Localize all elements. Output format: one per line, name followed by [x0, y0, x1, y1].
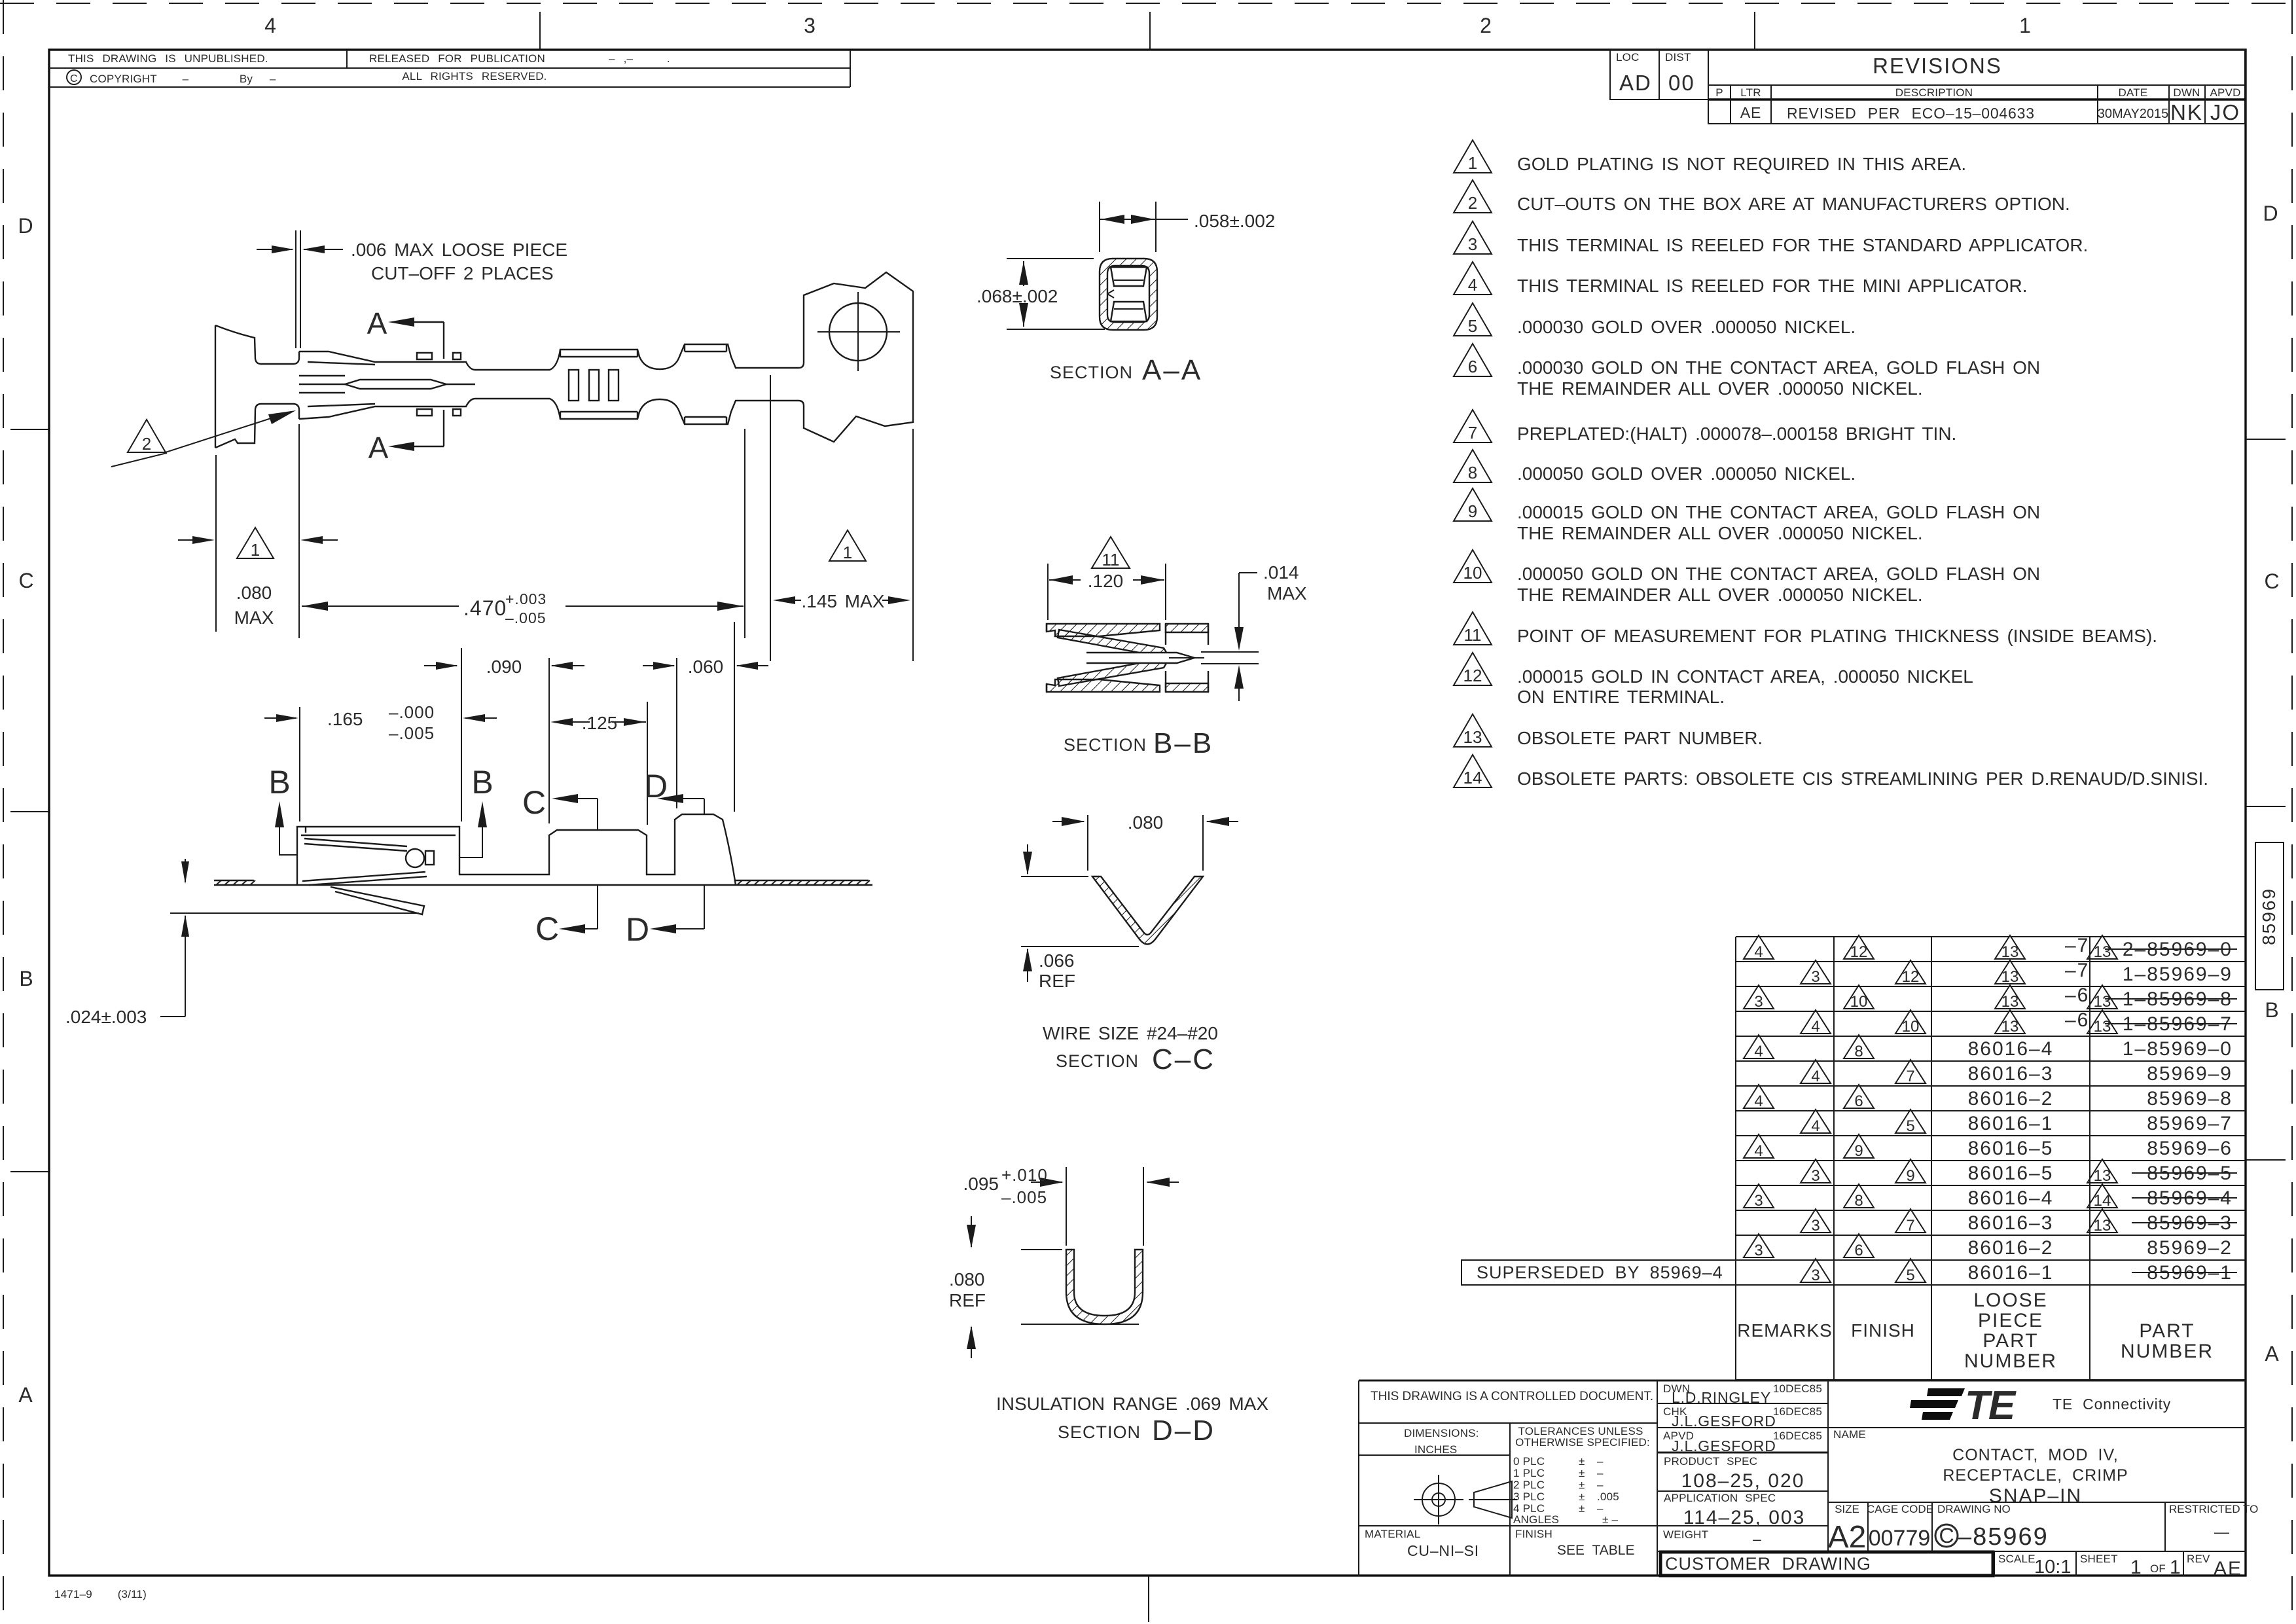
dim .090	[424, 658, 584, 823]
svg-text:REV: REV	[2187, 1553, 2210, 1565]
svg-text:A: A	[18, 1383, 33, 1407]
svg-text:ON ENTIRE TERMINAL.: ON ENTIRE TERMINAL.	[1517, 687, 1725, 707]
carrier strip tab	[804, 272, 913, 442]
svg-text:.165: .165	[327, 709, 363, 729]
svg-text:–: –	[1597, 1479, 1604, 1491]
svg-text:13: 13	[2001, 968, 2019, 986]
svg-text:.005: .005	[1597, 1490, 1619, 1503]
svg-text:OBSOLETE PART NUMBER.: OBSOLETE PART NUMBER.	[1517, 728, 1763, 748]
zone ticks top	[540, 12, 1755, 1622]
REVISIONS table	[1708, 50, 2245, 124]
note 1 flag	[1454, 140, 1492, 173]
svg-text:+.003: +.003	[505, 590, 547, 607]
TE logo	[1910, 1383, 2017, 1428]
svg-text:1 PLC: 1 PLC	[1513, 1467, 1545, 1479]
svg-text:THIS DRAWING IS UNPUBLISHED: THIS DRAWING IS UNPUBLISHED.	[68, 52, 268, 65]
title block	[1359, 1380, 2246, 1576]
svg-text:DATE: DATE	[2119, 86, 2148, 99]
svg-text:4: 4	[1754, 1092, 1763, 1110]
superseded box	[1462, 1260, 1736, 1285]
svg-text:THIS TERMINAL IS REELED FOR TH: THIS TERMINAL IS REELED FOR THE MINI APP…	[1517, 276, 2028, 296]
outer walls	[1047, 624, 1160, 636]
svg-text:86016–5: 86016–5	[1968, 1163, 2054, 1184]
beams inside A-A	[1111, 267, 1147, 321]
svg-text:PREPLATED:(HALT) .000078–.0001: PREPLATED:(HALT) .000078–.000158 BRIGHT …	[1517, 424, 1956, 444]
svg-text:C: C	[2264, 569, 2279, 593]
svg-text:30MAY2015: 30MAY2015	[2098, 107, 2169, 121]
svg-text:SCALE: SCALE	[1998, 1553, 2036, 1565]
svg-text:10DEC85: 10DEC85	[1773, 1382, 1822, 1395]
table row 14	[1801, 1259, 2237, 1284]
svg-text:.000050 GOLD ON THE CONTACT AR: .000050 GOLD ON THE CONTACT AREA, GOLD F…	[1517, 564, 2040, 584]
table row 4	[1801, 1009, 2237, 1036]
svg-text:12: 12	[1902, 968, 1920, 986]
box interior beams	[299, 376, 475, 393]
SECTION B-B view	[1047, 624, 1208, 692]
svg-text:THIS TERMINAL IS REELED FOR TH: THIS TERMINAL IS REELED FOR THE STANDARD…	[1517, 235, 2088, 255]
right wall section	[1166, 624, 1208, 632]
svg-text:.058±.002: .058±.002	[1194, 211, 1275, 231]
svg-text:DESCRIPTION: DESCRIPTION	[1895, 86, 1973, 99]
svg-text:85969–9: 85969–9	[2147, 1063, 2233, 1085]
svg-text:SIZE: SIZE	[1835, 1503, 1859, 1515]
svg-text:.068±.002: .068±.002	[977, 286, 1058, 306]
svg-text:8: 8	[1854, 1043, 1863, 1060]
svg-text:C: C	[535, 911, 559, 947]
svg-text:–6: –6	[2065, 1009, 2089, 1031]
dim .120	[1048, 564, 1166, 620]
svg-text:1–85969–0: 1–85969–0	[2123, 1038, 2233, 1060]
table row 10	[1801, 1159, 2237, 1185]
insulation barrel inner lines	[685, 344, 726, 424]
svg-text:±: ±	[1579, 1455, 1585, 1468]
svg-text:—: —	[2214, 1523, 2230, 1540]
serration slots	[569, 370, 579, 401]
svg-text:.014: .014	[1263, 562, 1299, 583]
svg-text:–: –	[1597, 1455, 1604, 1468]
svg-text:COPYRIGHT – By –: COPYRIGHT – By –	[90, 73, 276, 85]
svg-text:AD: AD	[1619, 71, 1652, 95]
svg-text:1471–9 (3/11): 1471–9 (3/11)	[54, 1588, 147, 1600]
svg-text:16DEC85: 16DEC85	[1773, 1405, 1822, 1418]
svg-text:7: 7	[1906, 1217, 1914, 1235]
svg-text:13: 13	[2001, 1018, 2019, 1036]
svg-text:DRAWING NO: DRAWING NO	[1937, 1503, 2011, 1515]
table row 11	[1744, 1184, 2237, 1210]
notes flags and texts	[1454, 140, 2208, 789]
svg-text:+.010: +.010	[1001, 1165, 1048, 1185]
table row 5	[1744, 1035, 2233, 1060]
svg-text:10: 10	[1463, 563, 1482, 583]
svg-text:SECTION: SECTION	[1064, 735, 1147, 755]
table row 7	[1744, 1085, 2233, 1110]
svg-text:.080: .080	[236, 583, 272, 603]
note 6 flag	[1454, 344, 1492, 376]
table row 9	[1744, 1134, 2233, 1160]
svg-text:C–C: C–C	[1152, 1043, 1215, 1075]
note 8 flag	[1454, 450, 1492, 482]
svg-text:APPLICATION SPEC: APPLICATION SPEC	[1664, 1492, 1776, 1504]
projection symbol	[1414, 1475, 1517, 1525]
svg-text:B–B: B–B	[1153, 727, 1213, 759]
box interior spring	[302, 839, 427, 885]
SECTION A-A view	[1100, 259, 1157, 330]
svg-text:RESTRICTED TO: RESTRICTED TO	[2169, 1503, 2258, 1515]
svg-text:C: C	[18, 569, 33, 592]
svg-text:85969: 85969	[2259, 888, 2279, 945]
svg-text:CUSTOMER DRAWING: CUSTOMER DRAWING	[1665, 1554, 1871, 1574]
svg-text:11: 11	[1464, 625, 1482, 645]
svg-text:PRODUCT SPEC: PRODUCT SPEC	[1664, 1455, 1757, 1468]
svg-text:–.005: –.005	[505, 609, 547, 626]
note 13 flag	[1454, 714, 1492, 747]
svg-text:JO: JO	[2210, 100, 2240, 124]
section D-D cut lines	[662, 799, 704, 814]
svg-text:A2: A2	[1828, 1520, 1867, 1555]
svg-text:OBSOLETE PARTS: OBSOLETE CIS S: OBSOLETE PARTS: OBSOLETE CIS STREAMLININ…	[1517, 768, 2208, 789]
svg-text:PART: PART	[1982, 1330, 2038, 1352]
svg-text:10:1: 10:1	[2034, 1557, 2071, 1578]
svg-text:DWN: DWN	[2173, 86, 2200, 99]
svg-text:–6: –6	[2065, 984, 2089, 1006]
svg-text:–.005: –.005	[389, 723, 435, 743]
svg-text:WIRE SIZE #24–#20: WIRE SIZE #24–#20	[1043, 1023, 1218, 1043]
svg-text:D–D: D–D	[1152, 1415, 1215, 1447]
svg-text:3: 3	[1811, 1217, 1820, 1235]
section A-A cut line bottom	[413, 410, 444, 446]
note 12 flag	[1454, 653, 1492, 685]
svg-text:11: 11	[1102, 550, 1120, 569]
svg-text:16DEC85: 16DEC85	[1773, 1430, 1822, 1442]
svg-text:13: 13	[2094, 1018, 2111, 1036]
svg-text:CUT–OUTS ON THE BOX ARE AT MAN: CUT–OUTS ON THE BOX ARE AT MANUFACTURERS…	[1517, 194, 2070, 214]
svg-text:PART: PART	[2139, 1320, 2195, 1342]
zone letters right	[2263, 202, 2279, 1365]
table row 2	[1801, 960, 2233, 986]
svg-text:NAME: NAME	[1833, 1428, 1866, 1441]
svg-text:12: 12	[1850, 943, 1868, 961]
svg-text:THIS DRAWING IS A CONTROLL: THIS DRAWING IS A CONTROLLED DOCUMENT.	[1371, 1390, 1653, 1403]
svg-text:1: 1	[2170, 1557, 2182, 1578]
svg-text:7: 7	[1906, 1068, 1914, 1085]
svg-text:13: 13	[2001, 943, 2019, 961]
svg-text:.024±.003: .024±.003	[65, 1007, 147, 1027]
svg-text:1: 1	[2019, 14, 2031, 37]
svg-text:NUMBER: NUMBER	[1964, 1350, 2057, 1372]
svg-text:86016–4: 86016–4	[1968, 1187, 2054, 1209]
zone numbers top	[264, 14, 2031, 37]
flag 11	[1092, 537, 1130, 568]
svg-text:–: –	[1753, 1530, 1762, 1547]
svg-text:LTR: LTR	[1740, 86, 1761, 99]
svg-text:A–A: A–A	[1142, 354, 1202, 386]
svg-text:± –: ± –	[1602, 1513, 1618, 1526]
svg-text:.080: .080	[1128, 812, 1164, 833]
svg-text:13: 13	[2094, 1167, 2111, 1185]
svg-text:LOOSE: LOOSE	[1973, 1290, 2047, 1311]
svg-text:6: 6	[1468, 357, 1477, 376]
svg-text:NUMBER: NUMBER	[2121, 1341, 2214, 1362]
svg-text:±: ±	[1579, 1467, 1585, 1479]
svg-text:3: 3	[1811, 968, 1820, 986]
svg-text:SECTION: SECTION	[1058, 1422, 1141, 1442]
svg-text:WEIGHT: WEIGHT	[1663, 1528, 1708, 1541]
table row 8	[1801, 1110, 2233, 1135]
svg-text:86016–4: 86016–4	[1968, 1038, 2054, 1060]
svg-text:CU–NI–SI: CU–NI–SI	[1407, 1542, 1479, 1559]
svg-text:OTHERWISE SPECIFIED:: OTHERWISE SPECIFIED:	[1515, 1436, 1650, 1449]
svg-text:13: 13	[2094, 1217, 2111, 1235]
svg-text:12: 12	[1463, 666, 1482, 685]
svg-text:L.D.RINGLEY: L.D.RINGLEY	[1672, 1389, 1771, 1406]
svg-text:3: 3	[1754, 1242, 1763, 1259]
svg-text:INSULATION RANGE .069 MAX: INSULATION RANGE .069 MAX	[996, 1394, 1268, 1414]
svg-text:LOC: LOC	[1616, 51, 1640, 63]
svg-text:–.005: –.005	[1001, 1187, 1047, 1207]
dim .165	[264, 648, 497, 821]
table row 6	[1801, 1060, 2233, 1085]
svg-text:C: C	[1939, 1524, 1954, 1547]
dim .145 max	[770, 375, 913, 661]
svg-text:P: P	[1715, 86, 1723, 99]
svg-text:.000030 GOLD ON THE CONTACT AR: .000030 GOLD ON THE CONTACT AREA, GOLD F…	[1517, 357, 2040, 378]
svg-text:114–25, 003: 114–25, 003	[1683, 1507, 1806, 1528]
beams	[1058, 630, 1168, 656]
svg-text:CONTACT, MOD IV,: CONTACT, MOD IV,	[1952, 1446, 2119, 1464]
svg-text:5: 5	[1906, 1267, 1914, 1284]
pilot hole	[829, 303, 887, 361]
svg-text:MAX: MAX	[1267, 583, 1307, 604]
svg-text:10: 10	[1850, 993, 1868, 1011]
svg-text:SEE TABLE: SEE TABLE	[1557, 1543, 1634, 1558]
svg-text:14: 14	[2094, 1192, 2111, 1210]
svg-text:D: D	[626, 911, 649, 948]
svg-text:4: 4	[1811, 1068, 1820, 1085]
svg-text:FINISH: FINISH	[1851, 1320, 1915, 1341]
svg-text:4: 4	[1754, 943, 1763, 961]
dim .058	[1100, 202, 1188, 252]
dim .060	[643, 622, 768, 812]
svg-text:APVD: APVD	[2210, 86, 2240, 99]
svg-text:13: 13	[2094, 993, 2111, 1011]
svg-text:B: B	[2265, 998, 2278, 1022]
svg-text:10: 10	[1902, 1018, 1920, 1036]
customer drawing bold box	[1660, 1552, 1993, 1576]
table header labels	[1737, 1290, 2214, 1372]
svg-text:REVISED PER ECO–15–004633: REVISED PER ECO–15–004633	[1787, 105, 2035, 122]
svg-text:.000015 GOLD IN CONTACT AREA,: .000015 GOLD IN CONTACT AREA, .000050 NI…	[1517, 666, 1973, 687]
svg-text:–7: –7	[2065, 935, 2089, 956]
svg-text:THE REMAINDER ALL OVER .000050: THE REMAINDER ALL OVER .000050 NICKEL.	[1517, 585, 1923, 605]
svg-text:ALL RIGHTS RESERVED.: ALL RIGHTS RESERVED.	[402, 70, 547, 82]
svg-text:±: ±	[1579, 1502, 1585, 1515]
svg-text:D: D	[18, 214, 33, 238]
svg-text:MATERIAL: MATERIAL	[1365, 1528, 1420, 1540]
note 5 flag	[1454, 303, 1492, 336]
dim .080 (C-C)	[1052, 815, 1238, 871]
svg-text:A: A	[2265, 1342, 2279, 1365]
svg-text:±: ±	[1579, 1490, 1585, 1503]
svg-text:GOLD PLATING IS NOT REQUIRED I: GOLD PLATING IS NOT REQUIRED IN THIS ARE…	[1517, 154, 1966, 174]
svg-text:8: 8	[1854, 1192, 1863, 1210]
note 7 flag	[1454, 410, 1492, 442]
svg-text:J.L.GESFORD: J.L.GESFORD	[1672, 1437, 1776, 1454]
svg-text:THE REMAINDER ALL OVER .000050: THE REMAINDER ALL OVER .000050 NICKEL.	[1517, 523, 1923, 543]
svg-text:4: 4	[1811, 1018, 1820, 1036]
svg-text:3: 3	[1754, 993, 1763, 1011]
svg-text:DIST: DIST	[1665, 51, 1691, 63]
svg-text:D: D	[2263, 202, 2278, 225]
svg-text:.006 MAX LOOSE PIECE: .006 MAX LOOSE PIECE	[351, 240, 567, 260]
svg-text:1: 1	[2130, 1557, 2143, 1578]
table row 1	[1744, 935, 2237, 961]
dim .024	[160, 859, 185, 1017]
svg-text:5: 5	[1468, 316, 1477, 336]
svg-text:–7: –7	[2065, 960, 2089, 981]
svg-text:INCHES: INCHES	[1414, 1443, 1457, 1456]
svg-text:1: 1	[251, 540, 260, 560]
svg-text:8: 8	[1468, 463, 1477, 482]
dim .470	[302, 429, 745, 638]
svg-text:13: 13	[2094, 943, 2111, 961]
svg-text:00779: 00779	[1869, 1526, 1931, 1551]
svg-text:4: 4	[1811, 1117, 1820, 1135]
svg-text:86016–1: 86016–1	[1968, 1113, 2054, 1134]
SECTION D-D view	[1066, 1250, 1143, 1324]
svg-text:A: A	[367, 306, 387, 340]
svg-text:C: C	[70, 73, 78, 84]
section C-C cut lines	[557, 799, 598, 830]
svg-text:–85969: –85969	[1958, 1523, 2049, 1551]
svg-text:4: 4	[1754, 1043, 1763, 1060]
svg-text:SHEET: SHEET	[2080, 1553, 2118, 1565]
note 11 flag	[1454, 612, 1492, 645]
svg-text:.060: .060	[688, 657, 724, 677]
svg-text:DIMENSIONS:: DIMENSIONS:	[1404, 1427, 1479, 1439]
svg-text:B: B	[19, 967, 33, 990]
dim .125	[556, 702, 647, 825]
svg-text:POINT OF MEASUREMENT FOR PLATI: POINT OF MEASUREMENT FOR PLATING THICKNE…	[1517, 626, 2157, 646]
svg-text:6: 6	[1854, 1242, 1863, 1259]
svg-text:1–85969–9: 1–85969–9	[2123, 964, 2233, 985]
svg-text:.120: .120	[1088, 571, 1124, 591]
svg-text:3: 3	[1468, 234, 1477, 254]
dim .080 REF (D-D)	[971, 1216, 1139, 1358]
side view body	[297, 814, 736, 885]
svg-text:B: B	[268, 764, 290, 801]
section A-A cut line top	[413, 322, 444, 359]
copyright block	[49, 50, 850, 87]
bell mouth	[215, 325, 299, 448]
svg-text:108–25, 020: 108–25, 020	[1681, 1470, 1805, 1492]
svg-text:.470: .470	[463, 596, 507, 620]
svg-text:–: –	[1597, 1467, 1604, 1479]
svg-text:5: 5	[1906, 1117, 1914, 1135]
svg-text:±: ±	[1579, 1479, 1585, 1491]
svg-text:.000015 GOLD ON THE CONTACT AR: .000015 GOLD ON THE CONTACT AREA, GOLD F…	[1517, 502, 2040, 522]
svg-text:2: 2	[1480, 14, 1492, 37]
parts table grid	[1736, 937, 2245, 1380]
svg-text:86016–2: 86016–2	[1968, 1088, 2054, 1110]
note 2 flag	[1454, 180, 1492, 213]
note 4 flag	[1454, 262, 1492, 295]
svg-text:B: B	[471, 764, 493, 801]
svg-text:3: 3	[1811, 1167, 1820, 1185]
svg-text:2 PLC: 2 PLC	[1513, 1479, 1545, 1491]
svg-text:1: 1	[1468, 153, 1477, 173]
note 14 flag	[1454, 755, 1492, 787]
table row 13	[1744, 1234, 2233, 1259]
svg-text:A: A	[368, 431, 389, 465]
svg-text:.000050 GOLD OVER .000050 NICK: .000050 GOLD OVER .000050 NICKEL.	[1517, 463, 1856, 484]
svg-text:CAGE CODE: CAGE CODE	[1867, 1503, 1933, 1515]
dim .066 REF	[1021, 844, 1139, 982]
svg-text:00: 00	[1668, 71, 1695, 95]
svg-text:.090: .090	[486, 657, 522, 677]
svg-text:TE: TE	[1965, 1383, 2017, 1428]
svg-text:REF: REF	[949, 1290, 986, 1310]
dim .095	[1031, 1167, 1179, 1246]
zone ticks left/right	[10, 429, 2286, 1172]
svg-text:REVISIONS: REVISIONS	[1873, 54, 2002, 78]
note 3 flag	[1454, 221, 1492, 254]
svg-text:86016–3: 86016–3	[1968, 1212, 2054, 1234]
flag note 2 leader	[128, 420, 166, 452]
wire barrel	[550, 344, 804, 424]
svg-text:3 PLC: 3 PLC	[1513, 1490, 1545, 1503]
svg-text:– ,– .: – ,– .	[609, 52, 670, 65]
svg-text:MAX: MAX	[234, 607, 274, 628]
table row 3	[1744, 984, 2237, 1011]
svg-text:13: 13	[2001, 993, 2019, 1011]
svg-text:SUPERSEDED BY 85969–4: SUPERSEDED BY 85969–4	[1477, 1263, 1723, 1282]
svg-text:.080: .080	[949, 1269, 985, 1290]
dim .080 max	[178, 424, 338, 638]
TOP VIEW: terminal plan view	[215, 272, 913, 448]
svg-text:RECEPTACLE, CRIMP: RECEPTACLE, CRIMP	[1943, 1466, 2128, 1485]
svg-text:.095: .095	[963, 1174, 999, 1194]
svg-text:13: 13	[1463, 727, 1482, 747]
svg-text:14: 14	[1463, 768, 1482, 787]
svg-text:TE Connectivity: TE Connectivity	[2053, 1396, 2171, 1413]
dim .006 max loose piece	[257, 230, 343, 348]
dim .014 MAX	[1201, 573, 1259, 701]
table row 12	[1801, 1209, 2237, 1235]
svg-text:86016–1: 86016–1	[1968, 1262, 2054, 1284]
svg-text:.066: .066	[1039, 950, 1075, 971]
receptacle box	[299, 352, 550, 419]
svg-text:AE: AE	[1740, 104, 1761, 121]
dim .068	[1007, 259, 1105, 329]
svg-text:.145 MAX: .145 MAX	[802, 591, 885, 611]
svg-text:ANGLES: ANGLES	[1513, 1513, 1559, 1526]
note 9 flag	[1454, 488, 1492, 521]
svg-text:85969–6: 85969–6	[2147, 1138, 2233, 1159]
svg-text:0 PLC: 0 PLC	[1513, 1455, 1545, 1468]
svg-text:3: 3	[804, 14, 816, 37]
svg-text:4: 4	[1754, 1142, 1763, 1160]
svg-text:6: 6	[1854, 1092, 1863, 1110]
svg-text:85969–8: 85969–8	[2147, 1088, 2233, 1110]
svg-text:2: 2	[142, 434, 151, 454]
svg-text:3: 3	[1754, 1192, 1763, 1210]
svg-text:1: 1	[843, 543, 852, 562]
svg-text:C: C	[522, 784, 546, 821]
svg-text:–.000: –.000	[389, 702, 435, 722]
svg-text:7: 7	[1468, 423, 1477, 442]
85969 side tab	[2255, 842, 2284, 990]
svg-text:SECTION: SECTION	[1050, 363, 1133, 382]
